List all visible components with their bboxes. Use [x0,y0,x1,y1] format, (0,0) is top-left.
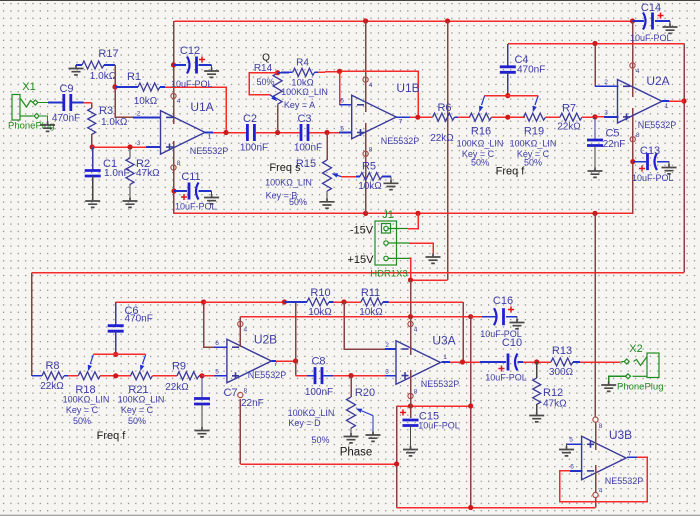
junction bottom line / V+ drop [468,505,473,510]
svg-text:100nF: 100nF [240,143,268,154]
ground R5 [384,180,399,190]
wire V- rail1 y=213.4 [174,212,634,214]
svg-text:1.0kΩ: 1.0kΩ [90,71,117,82]
svg-text:R12: R12 [543,387,563,399]
wire U1A pin8 drop [173,141,175,213]
capacitor C7 [201,376,203,399]
svg-text:Q: Q [262,53,270,64]
wire C13 ground stub [668,162,670,164]
junction C8 line / R20 [348,373,353,378]
wire +15V drop x=447.5 [447,21,449,280]
junction C3 / R15 top [324,130,329,135]
svg-text:U3A: U3A [432,334,455,348]
wire R1 right to U1A output node [165,87,226,133]
wire U2A pin4 riser [632,21,634,97]
capacitor C1 [92,147,94,171]
wire U2A minus input drop [594,44,596,87]
svg-text:X1: X1 [22,81,35,93]
wire minus input drop and lead [115,87,133,117]
svg-text:C14: C14 [641,2,661,14]
svg-text:Freq s: Freq s [269,162,301,174]
junction C4 bottom to chain [505,115,510,120]
junction C6 bottom to chain2 [113,373,118,378]
wire R14 wiper loop [275,70,280,75]
resistor R17 [76,64,82,66]
svg-text:10kΩ: 10kΩ [358,181,382,192]
ground C15 [403,446,418,456]
resistor R1 [115,86,138,88]
potentiometer R19 100K_LIN horizontal [524,113,546,121]
op-amp U2B [227,339,272,383]
wire plus input stub U1A [146,146,161,148]
pin 8 circle U3A [408,393,413,398]
ground C5 [588,168,603,178]
junction plus line and R2 [127,144,132,149]
junction U3A output node [460,359,465,364]
wire R21 wiper [143,354,146,364]
svg-text:1.0kΩ: 1.0kΩ [101,117,128,128]
capacitor C11 10uF-POL [171,188,176,193]
svg-text:22kΩ: 22kΩ [557,122,581,133]
wire U2B output down to C8 [295,361,297,376]
junction +15V at U3A column [408,277,413,282]
svg-text:C5: C5 [605,128,619,140]
junction plus input node R3/C1 [90,144,95,149]
svg-text:300Ω: 300Ω [549,367,574,378]
wire top V- rail y=21 [175,20,633,22]
junction R7 / C5 [592,114,597,119]
wire R11 to U3A output node [389,301,463,303]
svg-text:7: 7 [274,361,278,368]
svg-text:8: 8 [599,423,603,430]
capacitor C13 10uF-POL [630,159,635,164]
wire R15 wiper to R5 [341,176,356,178]
wire R10-R11 mid to U3A minus [344,302,385,349]
wire U1B pin4 riser [365,21,367,112]
svg-text:8: 8 [243,388,247,395]
svg-text:50%: 50% [471,158,489,168]
resistor R8 [32,375,42,377]
resistor R4 [278,71,293,73]
svg-text:10uF-POL: 10uF-POL [485,373,527,383]
op-amp U1B [352,95,397,139]
capacitor C9 [48,102,63,104]
junction R10 left [282,299,287,304]
junction R9 / C7 node [199,373,204,378]
wire bottom V+ line y=507.5 [397,507,596,509]
svg-text:22nF: 22nF [241,398,264,409]
svg-text:Key = D: Key = D [288,418,321,428]
capacitor C14 10uF-POL [633,20,645,22]
svg-text:10kΩ: 10kΩ [134,96,158,107]
wire V+ drop x=470.7 [470,317,472,508]
junction rail1 and J1 pin1 riser [415,211,420,216]
wire R8 to R18 [68,375,78,377]
svg-text:R8: R8 [45,360,59,372]
svg-text:100KΩ_LIN: 100KΩ_LIN [510,139,557,149]
svg-text:Key = A: Key = A [284,100,315,110]
svg-text:C2: C2 [243,113,257,125]
wire U2A feedback rail y=43.5 [508,43,684,45]
wire wiper bus y=95.6 [485,95,539,97]
svg-text:50%: 50% [524,158,542,168]
pin 8 circle U3B [593,417,598,422]
wire U2B pin4 riser [239,317,241,347]
svg-text:10kΩ: 10kΩ [291,78,313,89]
junction C2-C3 / R14 bottom [275,130,280,135]
op-amp U3A [396,341,441,385]
ground R2 [123,198,138,208]
svg-text:R17: R17 [98,48,118,60]
svg-text:7: 7 [399,119,403,126]
svg-text:U1A: U1A [190,100,213,114]
pin 8 circle U1A [171,165,176,170]
svg-text:4: 4 [414,327,418,334]
svg-text:50%: 50% [311,435,329,445]
ground C16 [510,319,525,329]
wire C11 ground stub [211,191,213,194]
wire U3B pin4 lead [595,465,597,492]
wire J1 pin1 to rail1 [408,213,418,228]
svg-text:100KΩ_LIN: 100KΩ_LIN [265,178,312,188]
wire R6 to R16 [458,116,470,118]
svg-text:50%: 50% [128,416,146,426]
resistor R9 [177,372,199,380]
svg-text:Phase: Phase [340,447,373,459]
connector X2 PhonePlug [624,353,659,379]
svg-text:Freq f: Freq f [97,430,127,442]
pin 8 circle U2B [238,392,243,397]
wire U3B plus stub and ground [567,443,582,445]
junction top rail and C14 [630,18,635,23]
svg-text:C8: C8 [311,356,325,368]
pin 4 circle U1B [363,77,368,82]
svg-text:10uF-POL: 10uF-POL [171,79,213,89]
wire C14 ground stub [669,21,671,24]
potentiometer R14 100K_LIN [277,105,279,133]
wire R20 wiper to ground [362,411,373,416]
wire U3A pin8 lead [410,370,412,418]
svg-text:+15V: +15V [348,254,375,266]
svg-text:100nF: 100nF [294,143,322,154]
op-amp U1A [161,111,206,155]
svg-text:4: 4 [177,98,181,105]
svg-text:C3: C3 [297,113,311,125]
wire C2 to C3 [256,132,300,134]
svg-text:470nF: 470nF [52,113,80,124]
svg-text:6: 6 [570,464,574,471]
svg-text:R6: R6 [437,102,451,114]
wire R17 down to R1 node [114,65,116,87]
svg-text:NE5532P: NE5532P [638,120,677,130]
wire to U2A plus stub [595,116,604,118]
wire U1B output [396,116,410,118]
svg-text:-15V: -15V [350,225,374,237]
pin 8 circle U1B [363,151,368,156]
capacitor C8 [307,375,314,377]
svg-text:8: 8 [369,147,373,154]
op-amp U2A [618,80,663,124]
wire U2B minus input drop [204,302,214,347]
svg-text:NE5532P: NE5532P [421,379,460,389]
wire X2 top terminal [620,361,625,364]
svg-text:R9: R9 [172,361,186,373]
junction rail43 and U2A minus drop [592,41,597,46]
svg-text:R1: R1 [127,71,141,83]
resistor R12 [536,362,538,378]
svg-text:4: 4 [369,82,373,89]
pin 4 circle U1A [171,93,176,98]
svg-text:22kΩ: 22kΩ [40,381,64,392]
ground U3B plus [559,446,574,456]
svg-text:100KΩ_LIN: 100KΩ_LIN [288,408,335,418]
wire R19 wiper [535,96,538,105]
wire to U2B plus stub [202,375,214,377]
resistor R13 [551,358,573,366]
svg-text:6: 6 [340,98,344,105]
svg-text:4: 4 [599,488,603,495]
svg-text:5: 5 [340,126,344,133]
svg-text:50%: 50% [73,416,91,426]
wire J1 pin3 +15V [409,258,411,280]
connector J1 HDR1X3 [375,221,409,265]
svg-text:U3B: U3B [609,428,632,442]
potentiometer R15 100K_LIN [326,133,328,161]
wire R10 line y=302 [204,301,285,303]
wire R10 to R11 [334,301,362,303]
junction U1B output node [415,115,420,120]
svg-text:10uF-POL: 10uF-POL [175,202,217,212]
junction rail1 and U3B pin8 drop [592,211,597,216]
junction R12 node [534,359,539,364]
ground C13 [662,164,677,174]
svg-text:HDR1X3: HDR1X3 [370,269,408,280]
wire +15V corner to riser [411,279,448,281]
connector X1 PhonePlug [12,95,39,121]
svg-text:J1: J1 [382,209,394,221]
pin 8 circle U2A [630,137,635,142]
svg-text:Freq f: Freq f [496,166,526,178]
svg-text:PhonePlug: PhonePlug [617,382,663,393]
junction y406 / V+ drop [468,403,473,408]
svg-text:10uF-POL: 10uF-POL [418,421,460,431]
svg-text:10uF-POL: 10uF-POL [630,33,672,43]
svg-text:3: 3 [604,110,608,117]
svg-text:3: 3 [137,140,141,147]
wire C6 top to R10 line [116,301,204,303]
wire X2 bottom terminal to ground [609,376,626,381]
wire U2B pin8 drop to y=464 [239,399,241,464]
wire R5 ground stub [390,177,392,180]
ground R17 [69,65,84,75]
svg-text:100KΩ_LIN: 100KΩ_LIN [457,139,504,149]
svg-text:U2B: U2B [254,333,277,347]
junction rail1 and U1B pin8 [363,211,368,216]
wire U1A output to C2 [205,132,213,134]
svg-text:C13: C13 [640,145,660,157]
wire U3B pin4 riser from bottom [595,498,597,508]
wire R21 to R9 [153,375,178,377]
pin 4 circle U3A [408,321,413,326]
wire U1B pin8 drop [365,123,367,213]
svg-text:R7: R7 [562,103,576,115]
svg-text:2: 2 [137,111,141,118]
junction rail3 / C16 [468,314,473,319]
resistor R10 [284,301,307,303]
resistor R11 [361,298,383,306]
capacitor C3 [301,124,308,141]
svg-text:2: 2 [385,342,389,349]
svg-text:R20: R20 [355,387,375,399]
wire U3B output stub [627,456,637,458]
wire C9 to R3 [91,103,93,109]
wire C3 to U1B plus [310,132,340,134]
ground C7 [195,427,210,437]
svg-text:47kΩ: 47kΩ [136,168,160,179]
op-amp U3B [582,436,627,480]
junction R10 line / U2B minus [201,299,206,304]
capacitor C15 10uF-POL vertical [403,420,419,426]
ground C12 [204,68,219,78]
wire U2A minus stub [595,85,619,87]
wire X1 top terminal to C9 [38,102,48,104]
svg-text:4: 4 [243,327,247,334]
capacitor C6 [115,302,117,326]
svg-text:R4: R4 [296,58,309,69]
ground R20 wiper [366,432,381,442]
ground R12 [529,412,544,422]
wire U3B pin8 drop x=595 [594,213,596,416]
svg-text:1: 1 [443,354,447,361]
wire U1B minus drop [339,71,341,104]
ground J1 [426,254,441,264]
svg-text:1: 1 [665,103,669,110]
potentiometer R20 100K_LIN [350,376,352,397]
junction U2B output / riser [293,358,298,363]
junction C4 wiper node [505,93,510,98]
ground C1 [85,198,100,208]
pin 4 circle U3B [593,492,598,497]
wire R13 to X2 [580,361,620,363]
junction top rail and +15V drop [445,18,450,23]
junction top rail and U1B pin4 [363,18,368,23]
capacitor C2 [247,124,254,141]
svg-text:R19: R19 [524,126,544,138]
svg-text:8: 8 [177,160,181,167]
wire U3B minus stub [570,470,583,472]
svg-text:C9: C9 [59,83,73,95]
resistor R7 [560,113,582,121]
resistor R5 [356,176,360,178]
wire +15V down to V+ rail3 [410,280,412,317]
svg-text:Key = C: Key = C [121,405,154,415]
svg-text:Key = C: Key = C [66,405,99,415]
wire U1B plus stub [339,132,352,134]
svg-text:100nF: 100nF [305,387,333,398]
ground C11 [204,194,219,204]
potentiometer R16 100K_LIN horizontal [470,113,492,121]
wire U3B pin8 lead [595,423,597,450]
svg-text:22nF: 22nF [603,139,626,150]
ground X2 [601,382,616,392]
resistor R2 [129,147,131,158]
junction y406 / U3A pin8 [408,403,413,408]
svg-text:1: 1 [208,134,212,141]
svg-text:2: 2 [604,79,608,86]
wire V+ rail3 y=316.7 [240,316,470,318]
wire U1A pin4 riser [173,21,175,124]
svg-text:50%: 50% [289,197,307,207]
wire J1 pin2 to ground [409,243,433,254]
wire U1B feedback loop [340,71,419,117]
potentiometer R21 100K_LIN horizontal [131,372,153,380]
junction R17/R1/minus-drop node [112,84,117,89]
svg-text:100KΩ_LIN: 100KΩ_LIN [118,395,165,405]
wire U2B output [272,360,277,362]
wire wiper bus2 y=354.4 [93,353,145,355]
wire R18 to R21 [100,375,131,377]
wire R4 to U1B feedback node [318,70,340,73]
svg-text:NE5532P: NE5532P [248,370,287,380]
svg-text:6: 6 [215,340,219,347]
svg-text:4: 4 [636,68,640,75]
junction x396 y464 [394,461,399,466]
capacitor C12 10uF-POL [171,62,176,67]
junction U1A output / R1 feedback [223,130,228,135]
svg-text:R16: R16 [471,126,491,138]
potentiometer R18 100K_LIN horizontal [78,372,100,380]
svg-text:R10: R10 [310,287,330,299]
wire C10 to R12 node [523,361,551,363]
svg-text:100KΩ_LIN: 100KΩ_LIN [63,395,110,405]
wire X1 bottom terminal to ground [40,116,48,122]
svg-text:R11: R11 [361,287,380,299]
capacitor C16 10uF-POL [471,316,482,318]
svg-text:R5: R5 [362,161,376,173]
svg-text:NE5532P: NE5532P [605,476,644,486]
svg-text:C16: C16 [493,295,513,307]
ground C14 [663,24,678,34]
svg-text:X2: X2 [629,343,642,355]
wire U2A output stub [662,100,669,102]
wire U2A pin8 drop [632,108,634,213]
wire R16 wiper [482,96,485,105]
wire R19 to R7 [546,116,561,118]
wire U3A pin4 lead [410,317,412,355]
ground R20 [344,433,359,443]
resistor R6 [433,113,455,121]
junction U2A output node [681,98,686,103]
svg-text:U2A: U2A [646,74,669,88]
svg-text:NE5532P: NE5532P [381,136,420,146]
svg-text:5: 5 [569,437,573,444]
capacitor C5 [594,117,596,140]
wire pin8 line y=406 [397,405,471,407]
svg-text:470nF: 470nF [125,314,153,325]
svg-text:22kΩ: 22kΩ [430,133,454,144]
wire U3B feedback loop [560,457,648,502]
junction rail3 / U3A pin4 [408,314,413,319]
svg-text:3: 3 [385,369,389,376]
wire x=396.6 drop [396,406,398,508]
junction R10-R11 mid [341,299,346,304]
wire plus input line y=147 [92,146,146,148]
svg-text:50%: 50% [256,77,274,87]
svg-text:470nF: 470nF [517,65,545,76]
wire feedback bus y=272.5 from U2A output to R8 [683,101,685,273]
wire C12 ground stub [211,65,213,68]
wire U3A plus stub [385,375,397,377]
